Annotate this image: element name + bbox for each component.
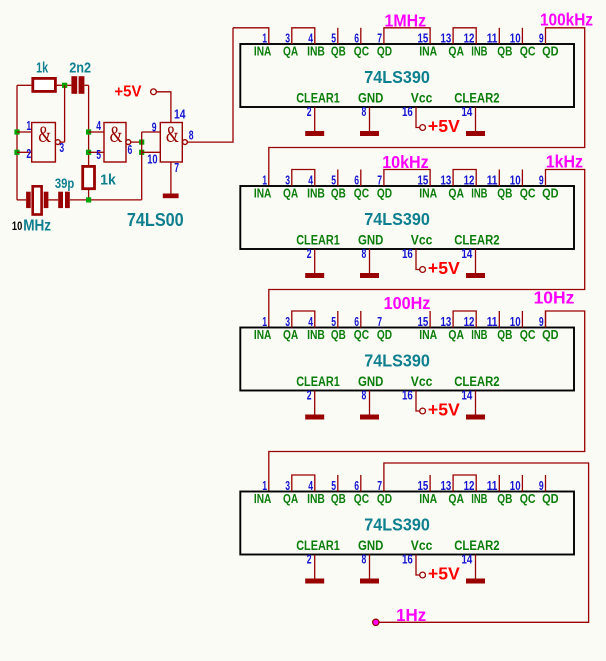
svg-text:11: 11 xyxy=(487,314,498,329)
svg-text:8: 8 xyxy=(362,104,367,119)
wire gate2 pin4 xyxy=(89,131,104,133)
svg-text:2n2: 2n2 xyxy=(69,60,91,77)
svg-text:INA: INA xyxy=(419,186,437,201)
wire U3 pin 13 QA to pin 12 INB xyxy=(453,170,476,187)
wire U3 pin 5 stub xyxy=(337,170,339,187)
+5V terminal U4 xyxy=(420,408,426,414)
svg-text:INA: INA xyxy=(254,491,272,506)
ground U5 pin 14 xyxy=(466,579,485,584)
svg-text:INA: INA xyxy=(254,44,272,59)
wire U5 pin 3 QA to pin 4 INB xyxy=(292,475,315,492)
wire U2 pin 13 QA to pin 12 INB xyxy=(453,28,476,44)
svg-text:QD: QD xyxy=(377,186,392,201)
NAND gate U1C 74LS00 xyxy=(160,122,187,162)
svg-text:QD: QD xyxy=(377,44,392,59)
svg-text:8: 8 xyxy=(362,246,367,261)
wire U2 pin 16 Vcc xyxy=(416,107,420,128)
svg-text:2: 2 xyxy=(307,387,312,402)
wire U5 pin 14 to ground xyxy=(475,555,477,579)
wire U3 pin 6 stub xyxy=(360,170,362,187)
wire U4 pin 11 stub xyxy=(498,311,500,328)
svg-text:74LS390: 74LS390 xyxy=(364,351,430,371)
wire U5 pin 9 stub xyxy=(545,475,547,492)
1Hz output terminal dot xyxy=(373,619,379,625)
wire U5 pin 6 stub xyxy=(360,475,362,492)
wire C1 to node B xyxy=(84,84,88,86)
svg-text:10Hz: 10Hz xyxy=(534,288,575,308)
wire U4 pin 5 stub xyxy=(337,311,339,328)
capacitor C2 39p xyxy=(58,192,70,208)
wire U5 pin 8 to ground xyxy=(369,555,371,579)
svg-text:QA: QA xyxy=(448,327,464,342)
junction gate1 pin2 xyxy=(14,150,19,155)
junction crystal line / R2 xyxy=(86,197,91,202)
wire gate3 pin9 xyxy=(142,131,161,133)
svg-text:INB: INB xyxy=(307,186,325,201)
svg-text:+5V: +5V xyxy=(428,116,460,136)
wire 10Hz feed xyxy=(269,311,585,492)
wire gate3 pin7 to ground xyxy=(170,162,172,194)
svg-text:QC: QC xyxy=(354,186,370,201)
wire U2 pin 6 stub xyxy=(360,28,362,44)
svg-text:5: 5 xyxy=(96,147,101,162)
svg-text:+5V: +5V xyxy=(428,400,460,420)
wire U3 pin 16 Vcc xyxy=(416,249,420,270)
NAND gate U1A 74LS00 xyxy=(32,122,60,162)
wire oscillator output xyxy=(187,28,233,142)
wire U4 pin 8 to ground xyxy=(369,391,371,415)
svg-text:QA: QA xyxy=(283,44,299,59)
wire U2 pin 1 input xyxy=(233,28,269,44)
svg-text:2: 2 xyxy=(307,104,312,119)
svg-text:39p: 39p xyxy=(55,175,74,191)
svg-text:QD: QD xyxy=(542,186,559,201)
svg-text:8: 8 xyxy=(189,128,194,143)
svg-text:QD: QD xyxy=(542,327,559,342)
svg-text:INB: INB xyxy=(471,491,487,506)
svg-text:+5V: +5V xyxy=(428,564,460,584)
svg-text:CLEAR1: CLEAR1 xyxy=(296,233,340,248)
wire U2 pin 5 stub xyxy=(337,28,339,44)
capacitor C1 2n2 xyxy=(71,76,84,94)
svg-text:Vcc: Vcc xyxy=(411,233,433,248)
svg-text:INA: INA xyxy=(419,44,437,59)
svg-text:2: 2 xyxy=(26,146,31,161)
wire U4 pin 13 QA to pin 12 INB xyxy=(453,311,476,328)
svg-text:2: 2 xyxy=(307,246,312,261)
svg-text:1k: 1k xyxy=(36,60,49,77)
svg-text:INA: INA xyxy=(419,491,437,506)
svg-text:QD: QD xyxy=(542,44,559,59)
svg-text:QB: QB xyxy=(331,44,346,59)
svg-text:INA: INA xyxy=(254,186,272,201)
wire U2 pin 7 QD to pin 15 INA xyxy=(384,28,430,44)
wire U2 pin 2 to ground xyxy=(314,107,316,131)
svg-text:&: & xyxy=(110,122,123,147)
wire U2 pin 8 to ground xyxy=(369,107,371,131)
svg-text:Vcc: Vcc xyxy=(411,91,433,106)
wire U5 pin 2 to ground xyxy=(314,555,316,579)
ground U3 pin 2 xyxy=(305,273,324,278)
svg-text:6: 6 xyxy=(128,142,133,157)
wire U4 pin 16 Vcc xyxy=(416,391,420,412)
svg-text:74LS390: 74LS390 xyxy=(364,515,430,535)
svg-text:16: 16 xyxy=(402,104,413,119)
wire U5 pin 13 QA to pin 12 INB xyxy=(453,475,476,492)
wire crystal to C2 xyxy=(48,199,58,201)
svg-text:QA: QA xyxy=(283,327,299,342)
svg-text:2: 2 xyxy=(307,551,312,566)
svg-text:QA: QA xyxy=(283,186,299,201)
svg-text:7: 7 xyxy=(174,160,179,175)
wire 1kHz feed xyxy=(269,170,585,328)
svg-text:QD: QD xyxy=(377,491,392,506)
wire 1Hz output xyxy=(379,463,589,622)
svg-text:CLEAR1: CLEAR1 xyxy=(296,91,340,106)
svg-text:74LS390: 74LS390 xyxy=(364,209,430,229)
wire U3 pin 14 to ground xyxy=(475,249,477,273)
wire U3 pin 11 stub xyxy=(498,170,500,187)
wire U5 pin 5 stub xyxy=(337,475,339,492)
svg-text:16: 16 xyxy=(402,246,413,261)
junction gate2-out xyxy=(139,140,144,145)
wire U5 pin 15 stub xyxy=(429,475,431,492)
junction gate1 pin1 xyxy=(14,129,19,134)
svg-text:1kHz: 1kHz xyxy=(546,151,584,171)
svg-text:1: 1 xyxy=(26,118,31,133)
svg-text:QB: QB xyxy=(497,491,512,506)
resistor R2 1k xyxy=(83,166,95,188)
svg-text:INB: INB xyxy=(307,44,325,59)
svg-text:11: 11 xyxy=(487,478,498,493)
svg-text:INB: INB xyxy=(307,491,325,506)
wire gate1 pin1 xyxy=(17,131,32,133)
svg-text:QC: QC xyxy=(354,491,370,506)
wire U4 pin 15 stub xyxy=(429,311,431,328)
svg-text:QB: QB xyxy=(497,44,512,59)
svg-text:100kHz: 100kHz xyxy=(540,10,593,30)
svg-text:INA: INA xyxy=(419,327,437,342)
svg-text:+5V: +5V xyxy=(428,258,460,278)
svg-text:MHz: MHz xyxy=(23,218,51,235)
wire U3 pin 10 stub xyxy=(521,170,523,187)
svg-text:QB: QB xyxy=(497,327,512,342)
svg-text:QD: QD xyxy=(377,327,392,342)
wire node B vertical xyxy=(88,85,90,166)
svg-text:QC: QC xyxy=(354,327,370,342)
wire C2 to node C xyxy=(70,199,142,201)
wire U5 pin 11 stub xyxy=(498,475,500,492)
svg-text:QA: QA xyxy=(448,186,464,201)
svg-text:16: 16 xyxy=(402,551,413,566)
svg-text:11: 11 xyxy=(487,31,498,46)
IC U3 74LS390 xyxy=(240,186,574,249)
resistor R1 1k xyxy=(33,78,56,91)
wire U2 pin 14 to ground xyxy=(475,107,477,131)
svg-text:QA: QA xyxy=(448,44,464,59)
+5V terminal U5 xyxy=(420,572,426,578)
wire U4 pin 10 stub xyxy=(521,311,523,328)
svg-text:INB: INB xyxy=(471,327,487,342)
svg-text:Vcc: Vcc xyxy=(411,538,433,553)
ground U4 pin 8 xyxy=(360,415,379,420)
wire gate2 output xyxy=(131,141,142,143)
ground U2 pin 14 xyxy=(466,131,485,136)
svg-text:10: 10 xyxy=(147,151,157,166)
ground (74LS00) xyxy=(163,194,179,199)
svg-text:14: 14 xyxy=(462,551,473,566)
wire gate1 output xyxy=(60,141,64,143)
wire U3 pin 7 QD to pin 15 INA xyxy=(384,170,430,187)
svg-text:100Hz: 100Hz xyxy=(384,293,431,313)
wire gate2 pin5 xyxy=(89,151,104,153)
IC U2 74LS390 xyxy=(240,44,574,107)
wire U4 pin 14 to ground xyxy=(475,391,477,415)
svg-text:16: 16 xyxy=(402,387,413,402)
IC U4 74LS390 xyxy=(240,328,574,391)
NAND gate U1B 74LS00 xyxy=(104,122,131,162)
wire R1 left xyxy=(17,84,33,86)
ground U5 pin 2 xyxy=(305,579,324,584)
wire U3 pin 8 to ground xyxy=(369,249,371,273)
wire gate3 pin10 xyxy=(142,151,161,153)
svg-text:4: 4 xyxy=(96,118,101,133)
wire left vertical net A xyxy=(16,85,18,200)
wire U4 pin 9 stub xyxy=(545,311,547,328)
wire U4 pin 6 stub xyxy=(360,311,362,328)
svg-text:8: 8 xyxy=(362,387,367,402)
wire gate3 pin14 to +5V xyxy=(156,92,171,123)
ground U2 pin 8 xyxy=(360,131,379,136)
svg-text:14: 14 xyxy=(462,104,473,119)
svg-text:QC: QC xyxy=(520,327,536,342)
svg-text:10: 10 xyxy=(12,221,22,233)
svg-text:1k: 1k xyxy=(100,171,116,188)
svg-text:14: 14 xyxy=(174,107,186,122)
svg-text:10kHz: 10kHz xyxy=(382,152,429,172)
wire U2 pin 10 stub xyxy=(521,28,523,44)
svg-text:14: 14 xyxy=(462,246,473,261)
svg-text:1MHz: 1MHz xyxy=(385,11,427,31)
svg-text:1Hz: 1Hz xyxy=(396,605,426,625)
svg-text:QB: QB xyxy=(331,491,346,506)
wire 100kHz feed xyxy=(269,28,585,186)
svg-text:CLEAR1: CLEAR1 xyxy=(296,538,340,553)
svg-text:74LS390: 74LS390 xyxy=(364,67,430,87)
wire U2 pin 11 stub xyxy=(498,28,500,44)
ground U3 pin 8 xyxy=(360,273,379,278)
ground U3 pin 14 xyxy=(466,273,485,278)
svg-text:9: 9 xyxy=(152,120,157,135)
crystal X1 10MHz xyxy=(26,186,48,214)
+5V terminal U2 xyxy=(420,125,426,131)
svg-text:14: 14 xyxy=(462,387,473,402)
svg-text:QA: QA xyxy=(283,491,299,506)
wire R1 to C1 xyxy=(55,84,71,86)
svg-text:+5V: +5V xyxy=(114,84,142,101)
svg-text:QD: QD xyxy=(542,491,559,506)
wire node C vertical xyxy=(141,132,143,200)
svg-text:Vcc: Vcc xyxy=(411,374,433,389)
svg-text:CLEAR1: CLEAR1 xyxy=(296,374,340,389)
IC U5 74LS390 xyxy=(240,492,574,555)
svg-text:8: 8 xyxy=(362,551,367,566)
svg-text:INB: INB xyxy=(471,186,487,201)
junction node R1/C1/gate1-out xyxy=(62,83,67,88)
svg-text:QC: QC xyxy=(520,186,536,201)
svg-text:INA: INA xyxy=(254,327,272,342)
wire U5 pin 10 stub xyxy=(521,475,523,492)
svg-text:11: 11 xyxy=(487,173,498,188)
junction gate2 pin5 xyxy=(86,150,91,155)
svg-text:INB: INB xyxy=(307,327,325,342)
wire U2 pin 3 QA to pin 4 INB xyxy=(292,28,315,44)
ground U5 pin 8 xyxy=(360,579,379,584)
wire to crystal xyxy=(17,199,26,201)
+5V terminal (74LS00) xyxy=(151,89,157,95)
svg-text:&: & xyxy=(38,122,51,147)
ground U4 pin 2 xyxy=(305,415,324,420)
svg-text:INB: INB xyxy=(471,44,487,59)
wire U4 pin 3 QA to pin 4 INB xyxy=(292,311,315,328)
wire gate1 output to node R1/C1 xyxy=(64,85,66,142)
ground U4 pin 14 xyxy=(466,415,485,420)
junction gate2 pin4 xyxy=(86,129,91,134)
junction gate3 pin10 xyxy=(139,150,144,155)
wire U3 pin 3 QA to pin 4 INB xyxy=(292,170,315,187)
wire U3 pin 2 to ground xyxy=(314,249,316,273)
wire gate1 pin2 xyxy=(17,151,32,153)
label X1 value 10MHz xyxy=(12,218,51,235)
svg-text:QC: QC xyxy=(354,44,370,59)
wire U4 pin 2 to ground xyxy=(314,391,316,415)
svg-text:QA: QA xyxy=(448,491,464,506)
svg-text:&: & xyxy=(166,122,179,147)
ground U2 pin 2 xyxy=(305,131,324,136)
svg-text:74LS00: 74LS00 xyxy=(127,209,184,230)
+5V terminal U3 xyxy=(420,267,426,273)
svg-text:QB: QB xyxy=(497,186,512,201)
svg-text:QB: QB xyxy=(331,327,346,342)
wire U5 pin 16 Vcc xyxy=(416,555,420,576)
svg-text:QC: QC xyxy=(520,491,536,506)
svg-text:QB: QB xyxy=(331,186,346,201)
svg-text:QC: QC xyxy=(520,44,536,59)
wire R2 to crystal line xyxy=(88,189,90,200)
